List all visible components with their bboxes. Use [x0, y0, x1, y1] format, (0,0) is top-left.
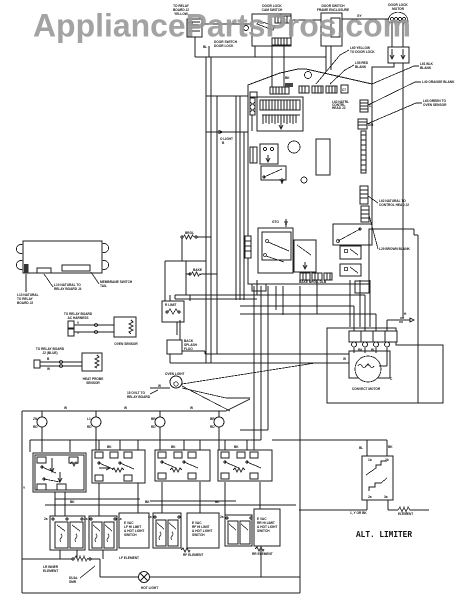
svg-text:HOT LIGHT: HOT LIGHT	[141, 586, 158, 590]
svg-text:BLANK: BLANK	[355, 65, 367, 69]
svg-text:W: W	[190, 406, 193, 410]
svg-text:2a: 2a	[368, 495, 372, 499]
svg-text:2a: 2a	[220, 515, 224, 519]
svg-text:BK: BK	[285, 76, 290, 80]
svg-text:J2 (BLUE): J2 (BLUE)	[42, 351, 57, 355]
svg-text:SWITCH: SWITCH	[124, 533, 137, 537]
svg-text:ELEMENT: ELEMENT	[43, 569, 58, 573]
svg-text:BLANK: BLANK	[420, 66, 432, 70]
svg-text:ZN: ZN	[33, 417, 38, 421]
svg-text:AC HARNESS: AC HARNESS	[67, 316, 88, 320]
svg-text:SWITCH: SWITCH	[257, 529, 270, 533]
svg-text:R LIMIT: R LIMIT	[165, 303, 177, 307]
svg-text:OVEN LIGHT: OVEN LIGHT	[165, 372, 185, 376]
svg-text:LF ELEMENT: LF ELEMENT	[119, 556, 139, 560]
svg-text:C7: C7	[342, 88, 346, 92]
svg-text:BK: BK	[145, 500, 150, 504]
svg-text:BR: BR	[151, 417, 156, 421]
svg-text:GTO: GTO	[272, 220, 279, 224]
svg-text:RD: RD	[210, 425, 215, 429]
svg-text:RF ELEMENT: RF ELEMENT	[183, 553, 203, 557]
svg-text:BROL: BROL	[185, 231, 194, 235]
svg-text:RD: RD	[87, 425, 92, 429]
svg-text:OVEN SENSOR: OVEN SENSOR	[114, 342, 138, 346]
svg-text:BL: BL	[371, 348, 375, 352]
svg-text:BK: BK	[358, 348, 363, 352]
svg-text:BOARD J2: BOARD J2	[17, 301, 33, 305]
svg-text:2a: 2a	[84, 517, 88, 521]
svg-text:CONVECT MOTOR: CONVECT MOTOR	[352, 387, 381, 391]
svg-text:ALT. LIMITER: ALT. LIMITER	[356, 530, 413, 540]
svg-text:W: W	[124, 406, 127, 410]
svg-text:BAKE BROIL DLB: BAKE BROIL DLB	[299, 280, 327, 284]
svg-text:FLUO: FLUO	[184, 347, 193, 351]
svg-text:BK: BK	[388, 445, 393, 449]
svg-text:BK: BK	[171, 445, 176, 449]
svg-text:BAKE: BAKE	[193, 268, 202, 272]
svg-text:TO DOOR LOCK: TO DOOR LOCK	[350, 50, 375, 54]
svg-text:SMR: SMR	[69, 580, 77, 584]
svg-text:L1: L1	[87, 417, 91, 421]
svg-text:SWITCH: SWITCH	[192, 533, 205, 537]
svg-text:L40 ORANGE BLANK: L40 ORANGE BLANK	[422, 80, 455, 84]
svg-text:3a: 3a	[384, 495, 388, 499]
svg-text:OVEN SENSOR: OVEN SENSOR	[423, 103, 447, 107]
svg-text:W: W	[158, 384, 161, 388]
svg-text:TAIL: TAIL	[100, 284, 107, 288]
svg-text:SENSOR: SENSOR	[86, 381, 100, 385]
svg-text:BK: BK	[107, 445, 112, 449]
svg-text:W: W	[64, 406, 67, 410]
svg-text:RD: RD	[151, 425, 156, 429]
svg-text:BK: BK	[234, 445, 239, 449]
svg-text:BL: BL	[203, 45, 207, 49]
svg-text:2a: 2a	[44, 517, 48, 521]
svg-text:BL: BL	[359, 446, 363, 450]
svg-text:AppliancePartsPros.com: AppliancePartsPros.com	[33, 8, 411, 44]
svg-text:ELEMENT: ELEMENT	[398, 512, 413, 516]
svg-text:RD: RD	[33, 425, 38, 429]
svg-text:DSI: DSI	[368, 123, 373, 127]
svg-text:1b: 1b	[368, 458, 372, 462]
svg-text:RR ELEMENT: RR ELEMENT	[252, 552, 273, 556]
svg-text:2a: 2a	[148, 515, 152, 519]
svg-text:BR: BR	[210, 417, 215, 421]
svg-text:HEAD J2: HEAD J2	[332, 106, 346, 110]
svg-text:W: W	[47, 367, 50, 371]
svg-text:CONTROL HEAD J2: CONTROL HEAD J2	[379, 203, 409, 207]
svg-text:L29 BROWN BLANK: L29 BROWN BLANK	[379, 247, 411, 251]
svg-text:1, Y OR BK: 1, Y OR BK	[350, 511, 367, 515]
svg-text:RELAY BOARD J4: RELAY BOARD J4	[54, 287, 82, 291]
svg-text:DOOR LOCK: DOOR LOCK	[214, 44, 234, 48]
svg-text:RELAY BOARD: RELAY BOARD	[127, 395, 151, 399]
svg-text:W: W	[343, 357, 346, 361]
svg-text:BK: BK	[70, 500, 75, 504]
